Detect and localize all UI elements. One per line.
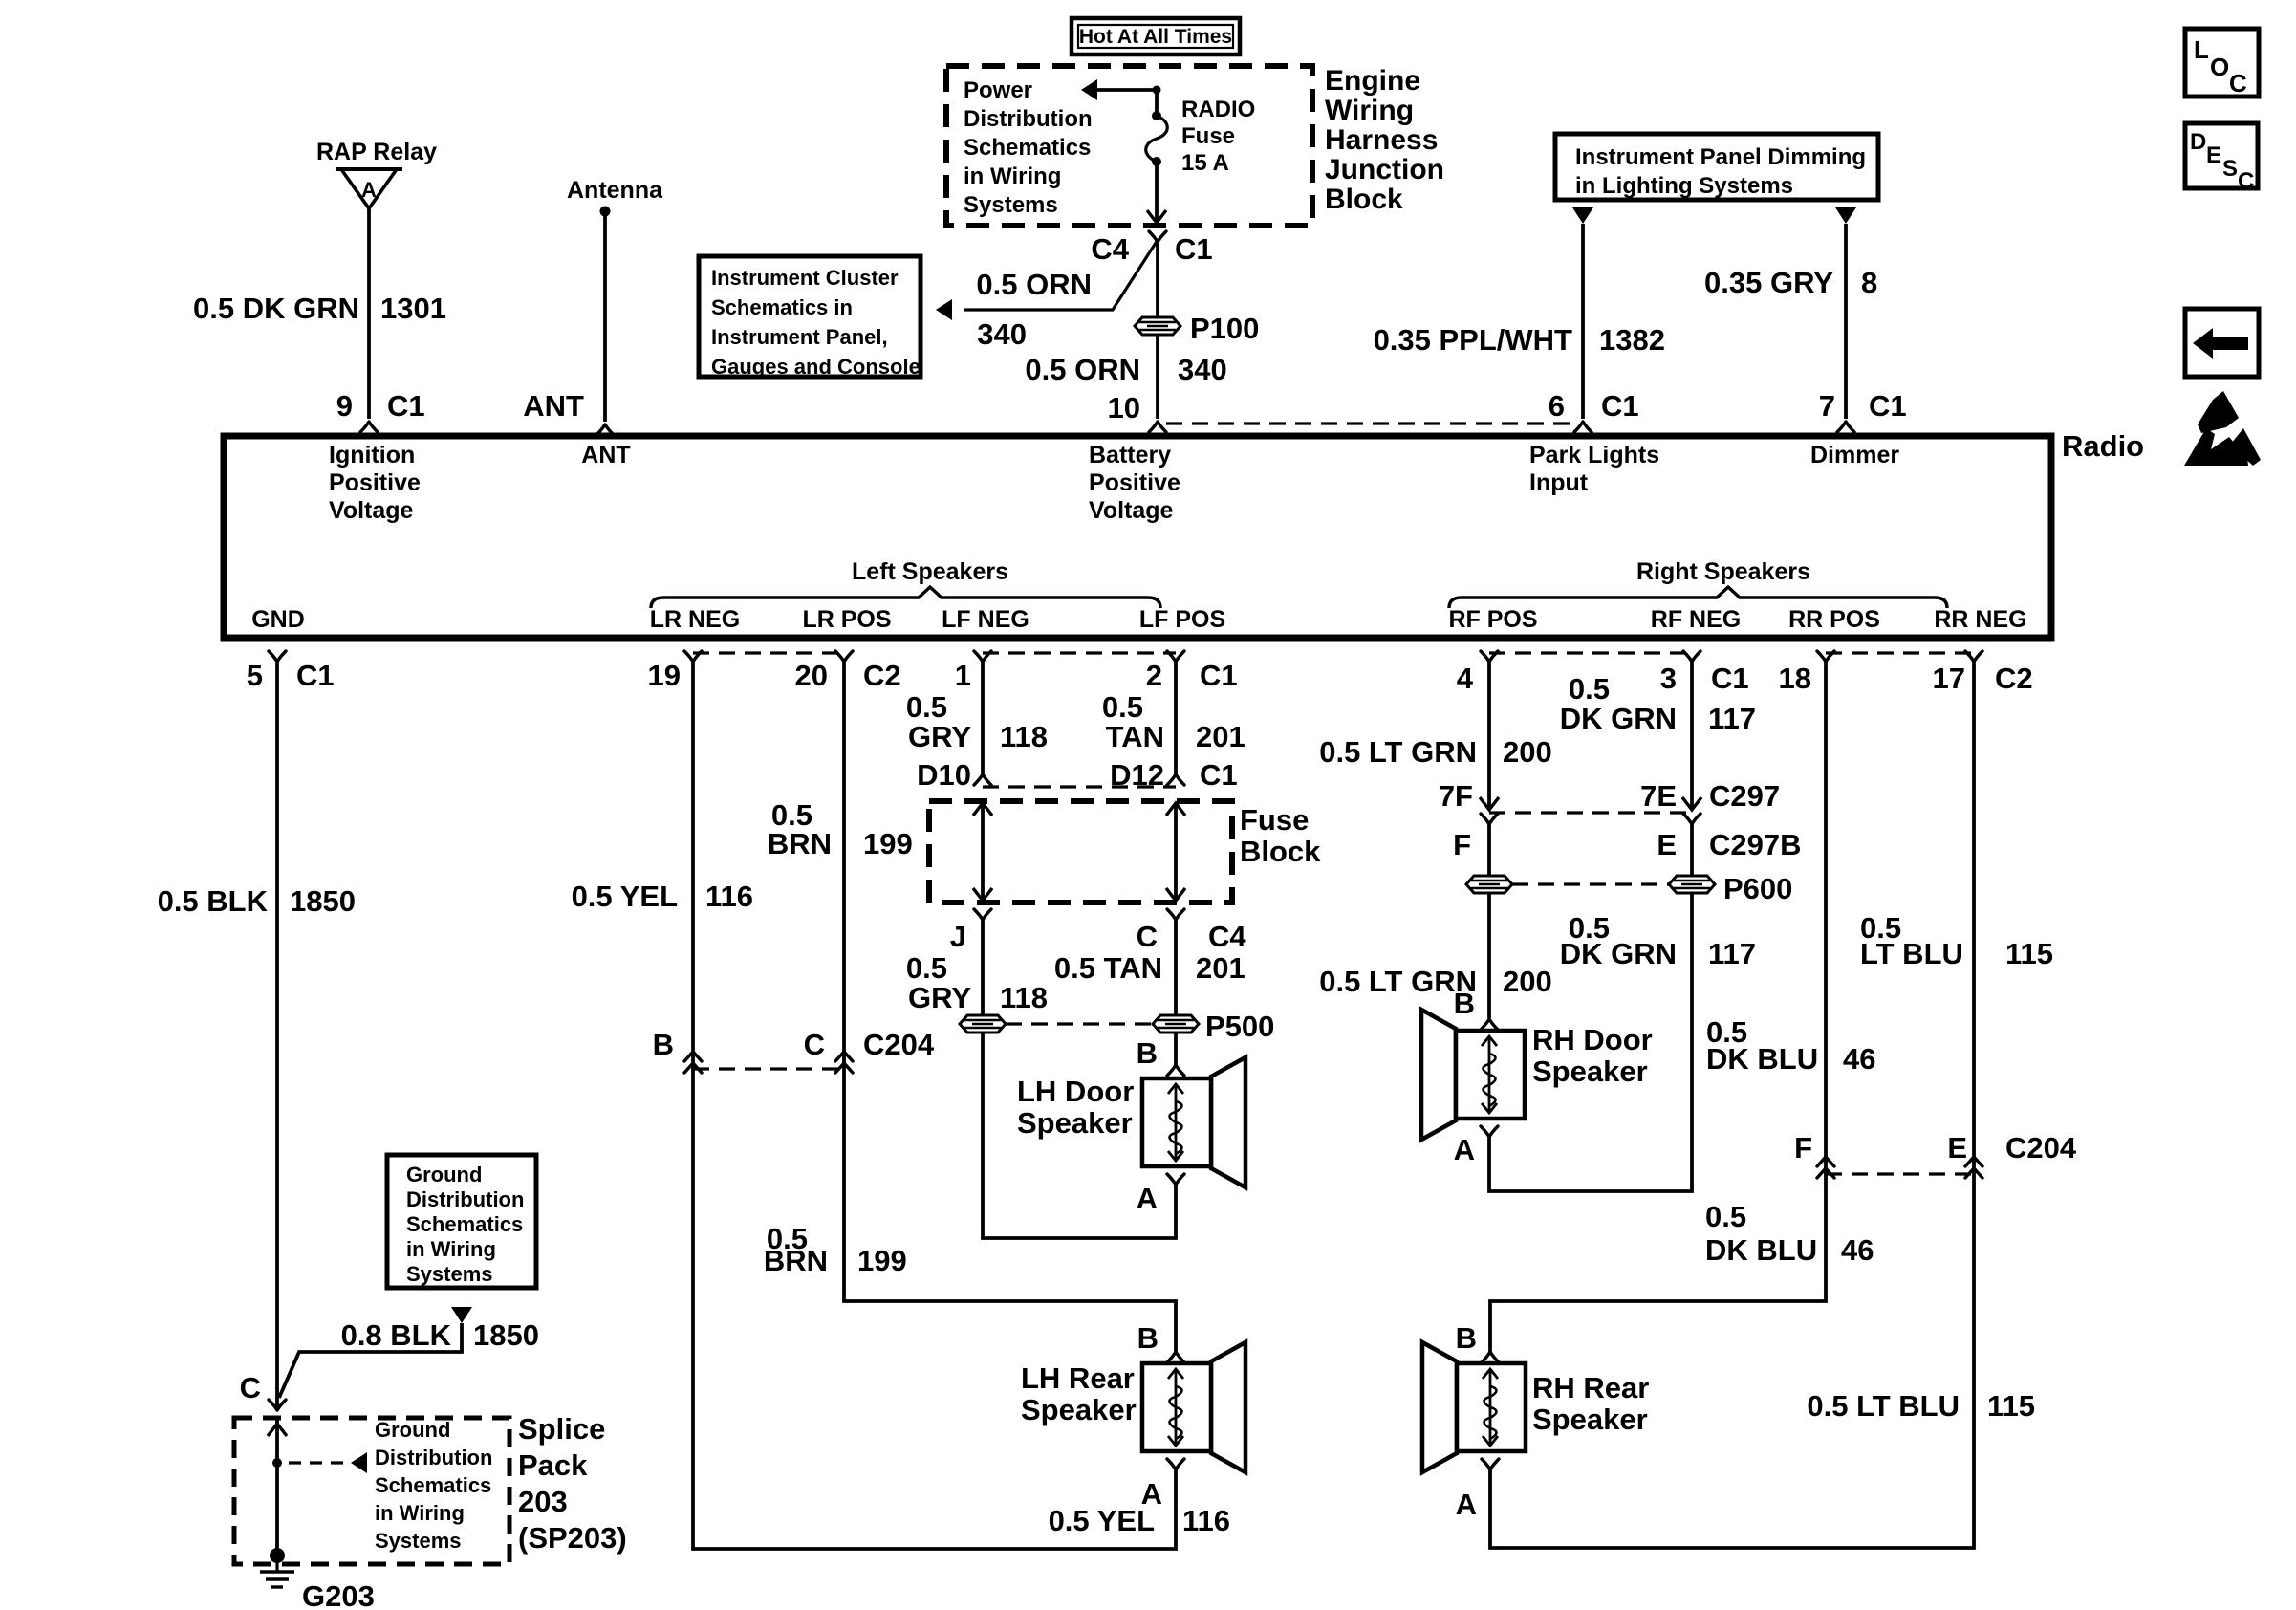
inline connector P100 <box>1135 317 1180 335</box>
inline connector P600 right <box>1669 876 1715 893</box>
dashed connector line C204 right <box>1826 1172 1974 1175</box>
RH door speaker pin B chevron <box>1481 1019 1498 1030</box>
svg-text:340: 340 <box>1178 353 1227 386</box>
dashed harness continuation <box>1166 422 1577 424</box>
power distribution arrow <box>1081 79 1157 100</box>
svg-text:118: 118 <box>1000 981 1048 1014</box>
svg-text:F: F <box>1794 1131 1812 1164</box>
wire label 0.5 DK BLU lower <box>1705 1200 1817 1267</box>
svg-text:Positive: Positive <box>329 469 421 496</box>
svg-text:DK BLU: DK BLU <box>1706 1042 1818 1076</box>
svg-text:C297: C297 <box>1709 779 1780 813</box>
wire LF POS upper <box>1174 662 1178 774</box>
svg-text:GND: GND <box>251 606 305 633</box>
RH door speaker pin A fork <box>1481 1126 1498 1137</box>
svg-text:in Lighting Systems: in Lighting Systems <box>1575 173 1793 199</box>
svg-text:Voltage: Voltage <box>1089 497 1174 524</box>
svg-text:A: A <box>1141 1477 1162 1511</box>
Splice Pack 203 label <box>518 1412 627 1555</box>
Engine Wiring Harness Junction Block label <box>1325 65 1444 215</box>
svg-text:Distribution: Distribution <box>964 106 1093 132</box>
svg-text:7F: 7F <box>1439 779 1473 813</box>
svg-text:3: 3 <box>1660 662 1677 695</box>
fuse dot lower <box>1152 157 1161 166</box>
LH Rear Speaker label <box>1021 1361 1137 1426</box>
pin 18 connector fork <box>1817 651 1834 662</box>
svg-text:9: 9 <box>336 389 353 423</box>
svg-text:Speaker: Speaker <box>1532 1403 1648 1436</box>
connector C204 pin C chevrons <box>835 1052 853 1073</box>
svg-text:0.5 DK GRN: 0.5 DK GRN <box>193 292 359 325</box>
back arrow legend box <box>2185 309 2259 377</box>
splice pack pointer triangle <box>351 1452 367 1473</box>
svg-text:DK GRN: DK GRN <box>1560 702 1677 735</box>
svg-text:C2: C2 <box>1995 662 2033 695</box>
svg-text:D10: D10 <box>917 758 971 792</box>
svg-text:1850: 1850 <box>290 884 356 918</box>
svg-text:201: 201 <box>1196 951 1245 985</box>
ground distribution arrow triangle <box>451 1307 472 1323</box>
connector F fork <box>1481 814 1498 824</box>
Hot At All Times box <box>1072 18 1240 54</box>
Fuse Block label <box>1240 803 1321 868</box>
svg-text:Left Speakers: Left Speakers <box>852 558 1008 585</box>
svg-text:C297B: C297B <box>1709 828 1802 861</box>
inline connector P600 left <box>1466 876 1512 893</box>
svg-text:10: 10 <box>1108 391 1140 424</box>
wire RAP relay to radio pin 9 <box>367 208 371 419</box>
svg-text:7E: 7E <box>1640 779 1677 813</box>
svg-text:Fuse: Fuse <box>1240 803 1309 837</box>
svg-text:Block: Block <box>1240 835 1321 868</box>
svg-text:117: 117 <box>1708 937 1756 970</box>
svg-text:Antenna: Antenna <box>567 177 663 204</box>
svg-text:Battery: Battery <box>1089 442 1171 468</box>
svg-text:in Wiring: in Wiring <box>375 1501 465 1525</box>
pin 6 connector chevron <box>1574 422 1592 432</box>
svg-text:Instrument Cluster: Instrument Cluster <box>711 266 899 290</box>
wire pin 10 vertical <box>1156 242 1159 419</box>
svg-text:TAN: TAN <box>1106 720 1164 753</box>
svg-text:LR NEG: LR NEG <box>650 606 740 633</box>
dimmer wire top triangle <box>1835 207 1856 224</box>
LOC legend box <box>2185 29 2259 98</box>
Instrument Panel Dimming box <box>1555 134 1878 200</box>
svg-text:C1: C1 <box>296 659 335 692</box>
svg-text:Systems: Systems <box>406 1262 493 1286</box>
RH Door Speaker label <box>1532 1023 1653 1088</box>
wire label 0.5 DK GRN lower <box>1560 911 1677 970</box>
dashed connector line pins 4-3 <box>1489 651 1692 654</box>
svg-text:C2: C2 <box>863 659 901 692</box>
wire label 0.5 DK GRN upper <box>1560 672 1677 735</box>
DESC legend box <box>2185 123 2258 194</box>
svg-text:BRN: BRN <box>768 827 832 860</box>
svg-text:E: E <box>1657 828 1677 861</box>
Instrument Cluster note box <box>699 256 921 379</box>
svg-text:LH Rear: LH Rear <box>1021 1361 1135 1395</box>
svg-text:Positive: Positive <box>1089 469 1180 496</box>
svg-text:Power: Power <box>964 77 1032 103</box>
connector C204 pin B chevrons <box>684 1052 702 1073</box>
svg-text:RF POS: RF POS <box>1448 606 1537 633</box>
wire fuse to C1 exit <box>1155 162 1159 221</box>
svg-text:RH Door: RH Door <box>1532 1023 1653 1056</box>
svg-text:Speaker: Speaker <box>1532 1055 1648 1088</box>
svg-text:Block: Block <box>1325 184 1403 215</box>
svg-text:C: C <box>1137 920 1158 953</box>
svg-text:Gauges and Console: Gauges and Console <box>711 355 921 379</box>
splice pack connector C fork <box>269 1400 286 1410</box>
svg-text:Distribution: Distribution <box>375 1446 492 1469</box>
svg-text:Engine: Engine <box>1325 65 1420 97</box>
wire antenna to radio ANT pin <box>603 211 607 422</box>
Ignition Positive Voltage pin label <box>329 442 421 524</box>
pin 2 connector fork <box>1167 651 1184 662</box>
svg-text:Radio: Radio <box>2062 429 2144 463</box>
svg-text:P100: P100 <box>1190 312 1259 345</box>
junction block dashed box <box>946 66 1312 226</box>
splice pack junction dot <box>272 1458 282 1468</box>
ground symbol G203 <box>260 1556 294 1587</box>
svg-text:GRY: GRY <box>908 981 971 1014</box>
svg-text:C1: C1 <box>1175 232 1213 266</box>
wire label 0.5 DK BLU upper <box>1706 1015 1818 1076</box>
svg-text:A: A <box>361 178 377 202</box>
fuse RADIO 15A squiggle <box>1146 116 1168 162</box>
svg-text:B: B <box>1137 1036 1158 1070</box>
svg-text:B: B <box>1456 1321 1477 1355</box>
svg-text:199: 199 <box>863 827 913 860</box>
svg-text:LR POS: LR POS <box>802 606 891 633</box>
svg-text:Instrument Panel,: Instrument Panel, <box>711 325 888 349</box>
wire 0.5 BLK 1850 vertical <box>275 662 279 1409</box>
svg-text:0.5 LT BLU: 0.5 LT BLU <box>1807 1389 1960 1423</box>
wire RR NEG <box>1490 662 1974 1548</box>
svg-text:J: J <box>950 920 966 953</box>
svg-text:203: 203 <box>518 1485 568 1518</box>
svg-text:4: 4 <box>1457 662 1474 695</box>
wire LR POS 0.5 BRN <box>844 662 1176 1352</box>
svg-text:0.5: 0.5 <box>1102 690 1143 724</box>
svg-text:C1: C1 <box>1711 662 1749 695</box>
svg-text:LF NEG: LF NEG <box>942 606 1029 633</box>
fuse block right wire <box>1166 803 1185 901</box>
RAP relay triangle A <box>336 169 402 208</box>
svg-text:Ignition: Ignition <box>329 442 415 468</box>
svg-text:Ground: Ground <box>406 1163 482 1186</box>
svg-text:G203: G203 <box>302 1579 375 1610</box>
fuse dot upper <box>1152 111 1161 120</box>
wire RF POS lower <box>1487 824 1491 1018</box>
RH Door Speaker <box>1421 1010 1525 1140</box>
svg-text:RH Rear: RH Rear <box>1532 1371 1649 1404</box>
antenna node dot <box>600 207 611 217</box>
svg-text:C: C <box>2229 69 2247 98</box>
svg-text:Schematics in: Schematics in <box>711 295 853 319</box>
splice pack dashed pointer <box>289 1461 350 1464</box>
svg-text:1301: 1301 <box>380 292 446 325</box>
svg-text:117: 117 <box>1708 702 1756 735</box>
pin 4 connector fork <box>1481 651 1498 662</box>
svg-text:in Wiring: in Wiring <box>406 1237 496 1261</box>
svg-text:RR POS: RR POS <box>1788 606 1880 633</box>
ANT pin connector chevron <box>596 424 614 435</box>
RH rear speaker pin B chevron <box>1482 1352 1499 1362</box>
Park Lights Input pin label <box>1529 442 1659 496</box>
dashed connector line C297 <box>1489 811 1692 814</box>
pin 1 connector fork <box>974 651 991 662</box>
dashed connector line D10-D12 <box>983 785 1176 788</box>
svg-text:Systems: Systems <box>964 192 1058 218</box>
svg-text:DK BLU: DK BLU <box>1705 1233 1817 1267</box>
LH Rear Speaker <box>1142 1342 1245 1472</box>
svg-text:Pack: Pack <box>518 1448 588 1482</box>
svg-text:C1: C1 <box>1601 389 1639 423</box>
connector C fork <box>1167 909 1184 920</box>
svg-text:200: 200 <box>1503 735 1552 769</box>
svg-text:RADIO: RADIO <box>1181 97 1255 122</box>
LH rear speaker pin A fork <box>1167 1459 1184 1469</box>
svg-text:Harness: Harness <box>1325 124 1438 156</box>
LH rear speaker pin B chevron <box>1167 1352 1184 1362</box>
svg-text:RF NEG: RF NEG <box>1651 606 1741 633</box>
svg-text:19: 19 <box>648 659 681 692</box>
wire RF POS upper <box>1487 662 1491 808</box>
ESD sensitive symbol <box>2184 391 2261 466</box>
svg-text:LH Door: LH Door <box>1017 1075 1134 1108</box>
svg-text:Distribution: Distribution <box>406 1187 524 1211</box>
svg-text:0.8 BLK: 0.8 BLK <box>341 1318 452 1352</box>
connector E fork <box>1683 814 1700 824</box>
svg-text:Speaker: Speaker <box>1021 1393 1137 1426</box>
svg-text:116: 116 <box>705 880 753 913</box>
svg-text:Hot At All Times: Hot At All Times <box>1079 26 1232 48</box>
wire to fuse <box>1155 90 1159 116</box>
inline connector P500 right <box>1153 1015 1199 1033</box>
pin 10 connector chevron <box>1149 422 1166 432</box>
pin 20 connector fork <box>835 651 853 662</box>
dashed connector line P500 <box>1006 1022 1153 1025</box>
wire inside splice pack <box>275 1418 279 1556</box>
Radio box <box>224 436 2051 638</box>
junction dot top <box>1153 86 1161 95</box>
svg-text:C204: C204 <box>863 1028 935 1061</box>
svg-text:C204: C204 <box>2005 1131 2077 1164</box>
Power Distribution Schematics note <box>964 77 1093 218</box>
svg-text:Instrument Panel Dimming: Instrument Panel Dimming <box>1575 144 1866 170</box>
svg-text:116: 116 <box>1182 1504 1230 1537</box>
svg-text:0.5 YEL: 0.5 YEL <box>1049 1504 1155 1537</box>
svg-text:Voltage: Voltage <box>329 497 414 524</box>
dashed connector line pins 1-2 <box>983 651 1176 654</box>
svg-text:Fuse: Fuse <box>1181 123 1235 149</box>
connector C297 arrow right <box>1682 797 1701 810</box>
svg-text:Schematics: Schematics <box>406 1212 523 1236</box>
splice pack wire up arrow <box>268 1424 287 1436</box>
svg-text:C4: C4 <box>1091 232 1129 266</box>
svg-text:C: C <box>2238 168 2254 194</box>
wire 0.8 BLK branch <box>279 1323 462 1398</box>
svg-text:Input: Input <box>1529 469 1589 496</box>
LH Door Speaker label <box>1017 1075 1134 1140</box>
svg-text:0.5 BLK: 0.5 BLK <box>158 884 269 918</box>
svg-text:in Wiring: in Wiring <box>964 163 1061 189</box>
wire 0.5 TAN 201 lower <box>1174 920 1178 1065</box>
svg-text:ANT: ANT <box>523 389 584 423</box>
svg-text:C1: C1 <box>1869 389 1907 423</box>
svg-text:18: 18 <box>1779 662 1811 695</box>
dashed connector line pins 18-17 <box>1826 651 1974 654</box>
svg-text:GRY: GRY <box>908 720 971 753</box>
wire RF NEG upper <box>1690 662 1694 808</box>
svg-text:0.5 YEL: 0.5 YEL <box>572 880 678 913</box>
svg-text:0.35 PPL/WHT: 0.35 PPL/WHT <box>1374 323 1572 357</box>
connector C297 arrow left <box>1480 797 1499 810</box>
svg-text:Park Lights: Park Lights <box>1529 442 1659 468</box>
left speakers brace <box>651 587 1160 608</box>
svg-text:Ground: Ground <box>375 1418 450 1442</box>
inline connector P500 left <box>960 1015 1006 1033</box>
svg-text:46: 46 <box>1841 1233 1874 1267</box>
pin 17 connector fork <box>1965 651 1982 662</box>
connector C204 pin F chevrons <box>1817 1157 1834 1178</box>
svg-text:6: 6 <box>1549 389 1565 423</box>
svg-text:Systems: Systems <box>375 1529 462 1553</box>
C4/C1 fork <box>1149 231 1166 242</box>
wire LR NEG 0.5 YEL <box>693 662 1176 1549</box>
svg-text:A: A <box>1456 1488 1477 1521</box>
dashed connector line pins 19-20 <box>693 651 844 654</box>
dashed connector line P600 <box>1512 882 1669 885</box>
svg-text:A: A <box>1454 1133 1475 1166</box>
arrow down at junction block exit <box>1147 210 1166 223</box>
svg-text:D: D <box>2190 129 2206 155</box>
svg-text:LF POS: LF POS <box>1139 606 1225 633</box>
svg-text:0.5 ORN: 0.5 ORN <box>976 268 1092 301</box>
svg-text:0.5 LT GRN: 0.5 LT GRN <box>1319 735 1477 769</box>
LH door speaker pin A fork <box>1167 1174 1184 1185</box>
right speakers brace <box>1449 587 1947 608</box>
wire RF NEG lower <box>1489 824 1692 1191</box>
svg-text:L: L <box>2194 35 2209 64</box>
svg-text:8: 8 <box>1861 266 1877 299</box>
svg-text:ANT: ANT <box>581 442 630 468</box>
LH Door Speaker <box>1142 1057 1245 1187</box>
svg-text:Splice: Splice <box>518 1412 605 1446</box>
svg-text:0.5: 0.5 <box>1569 672 1610 706</box>
svg-text:200: 200 <box>1503 965 1552 998</box>
svg-text:B: B <box>1137 1321 1159 1355</box>
svg-text:1850: 1850 <box>473 1318 539 1352</box>
svg-text:C1: C1 <box>387 389 425 423</box>
svg-text:20: 20 <box>795 659 828 692</box>
branch diagonal to instrument cluster <box>964 240 1158 310</box>
svg-text:115: 115 <box>1987 1389 2035 1423</box>
svg-text:BRN: BRN <box>764 1244 828 1277</box>
svg-text:17: 17 <box>1933 662 1965 695</box>
RADIO Fuse 15 A label <box>1181 97 1255 176</box>
svg-text:Right Speakers: Right Speakers <box>1636 558 1810 585</box>
svg-text:A: A <box>1137 1182 1158 1215</box>
wire 0.5 GRY 118 lower <box>983 920 1176 1238</box>
svg-text:Dimmer: Dimmer <box>1810 442 1899 468</box>
svg-text:B: B <box>1454 987 1475 1020</box>
svg-text:C: C <box>804 1028 825 1061</box>
wire dimmer <box>1844 224 1848 419</box>
svg-text:Wiring: Wiring <box>1325 95 1414 126</box>
splice pack dashed box <box>234 1418 509 1564</box>
Battery Positive Voltage pin label <box>1089 442 1180 524</box>
wire label 0.5 GRY upper <box>906 690 971 753</box>
svg-text:P500: P500 <box>1205 1010 1274 1043</box>
wire label 0.5 GRY lower <box>906 951 971 1014</box>
svg-text:7: 7 <box>1819 389 1835 423</box>
svg-text:RR NEG: RR NEG <box>1934 606 2026 633</box>
svg-text:0.5: 0.5 <box>1705 1200 1746 1233</box>
svg-text:0.5: 0.5 <box>906 690 947 724</box>
wire park lights input <box>1581 224 1585 419</box>
RH Rear Speaker <box>1422 1342 1526 1472</box>
svg-text:0.35 GRY: 0.35 GRY <box>1704 266 1833 299</box>
svg-text:2: 2 <box>1146 659 1162 692</box>
connector J fork <box>974 909 991 920</box>
svg-text:P600: P600 <box>1723 872 1792 905</box>
connector C204 pin E chevrons <box>1965 1157 1982 1178</box>
svg-text:E: E <box>2206 142 2221 168</box>
pin 9 connector chevron <box>360 422 378 432</box>
RH Rear Speaker label <box>1532 1371 1649 1436</box>
svg-text:D12: D12 <box>1110 758 1164 792</box>
fuse block dashed box <box>929 801 1232 903</box>
park lights wire top triangle <box>1572 207 1593 224</box>
svg-text:0.5: 0.5 <box>906 951 947 985</box>
wire label 0.5 TAN upper <box>1102 690 1164 753</box>
svg-text:S: S <box>2222 156 2238 182</box>
svg-text:118: 118 <box>1000 720 1048 753</box>
dashed connector line C204 left <box>693 1067 844 1070</box>
svg-text:1: 1 <box>955 659 971 692</box>
svg-text:C1: C1 <box>1200 758 1238 792</box>
svg-text:Junction: Junction <box>1325 154 1444 185</box>
wire RR POS <box>1490 662 1826 1352</box>
svg-text:C4: C4 <box>1208 920 1246 953</box>
svg-text:0.5 TAN: 0.5 TAN <box>1054 951 1162 985</box>
svg-text:RAP Relay: RAP Relay <box>316 139 437 165</box>
RH rear speaker pin A fork <box>1482 1459 1499 1469</box>
Ground Distribution Schematics note in splice pack <box>375 1418 492 1553</box>
connector D10 fork <box>974 774 991 785</box>
svg-text:(SP203): (SP203) <box>518 1521 627 1555</box>
pin 19 connector fork <box>684 651 702 662</box>
svg-text:115: 115 <box>2005 937 2053 970</box>
fuse block left wire <box>973 803 992 901</box>
svg-text:1382: 1382 <box>1599 323 1665 357</box>
svg-text:0.5 ORN: 0.5 ORN <box>1025 353 1140 386</box>
svg-text:LT BLU: LT BLU <box>1860 937 1963 970</box>
LH door speaker pin B chevron <box>1167 1065 1184 1076</box>
wire LF NEG upper <box>981 662 985 774</box>
svg-text:F: F <box>1453 828 1471 861</box>
svg-text:C1: C1 <box>1200 659 1238 692</box>
svg-text:Schematics: Schematics <box>964 135 1091 161</box>
svg-text:E: E <box>1947 1131 1967 1164</box>
pin 5 connector fork <box>269 651 286 662</box>
svg-text:Schematics: Schematics <box>375 1473 491 1497</box>
pin 3 connector fork <box>1683 651 1700 662</box>
svg-text:B: B <box>653 1028 674 1061</box>
svg-text:Speaker: Speaker <box>1017 1106 1133 1140</box>
